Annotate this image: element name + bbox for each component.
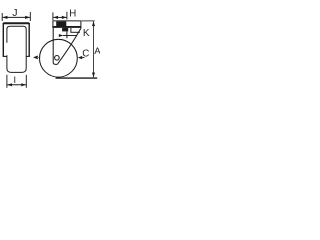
svg-text:C: C: [82, 49, 89, 60]
svg-text:K: K: [83, 28, 90, 39]
svg-text:A: A: [94, 46, 100, 57]
svg-text:J: J: [12, 7, 17, 19]
svg-text:I: I: [14, 75, 17, 85]
svg-text:H: H: [69, 9, 76, 20]
